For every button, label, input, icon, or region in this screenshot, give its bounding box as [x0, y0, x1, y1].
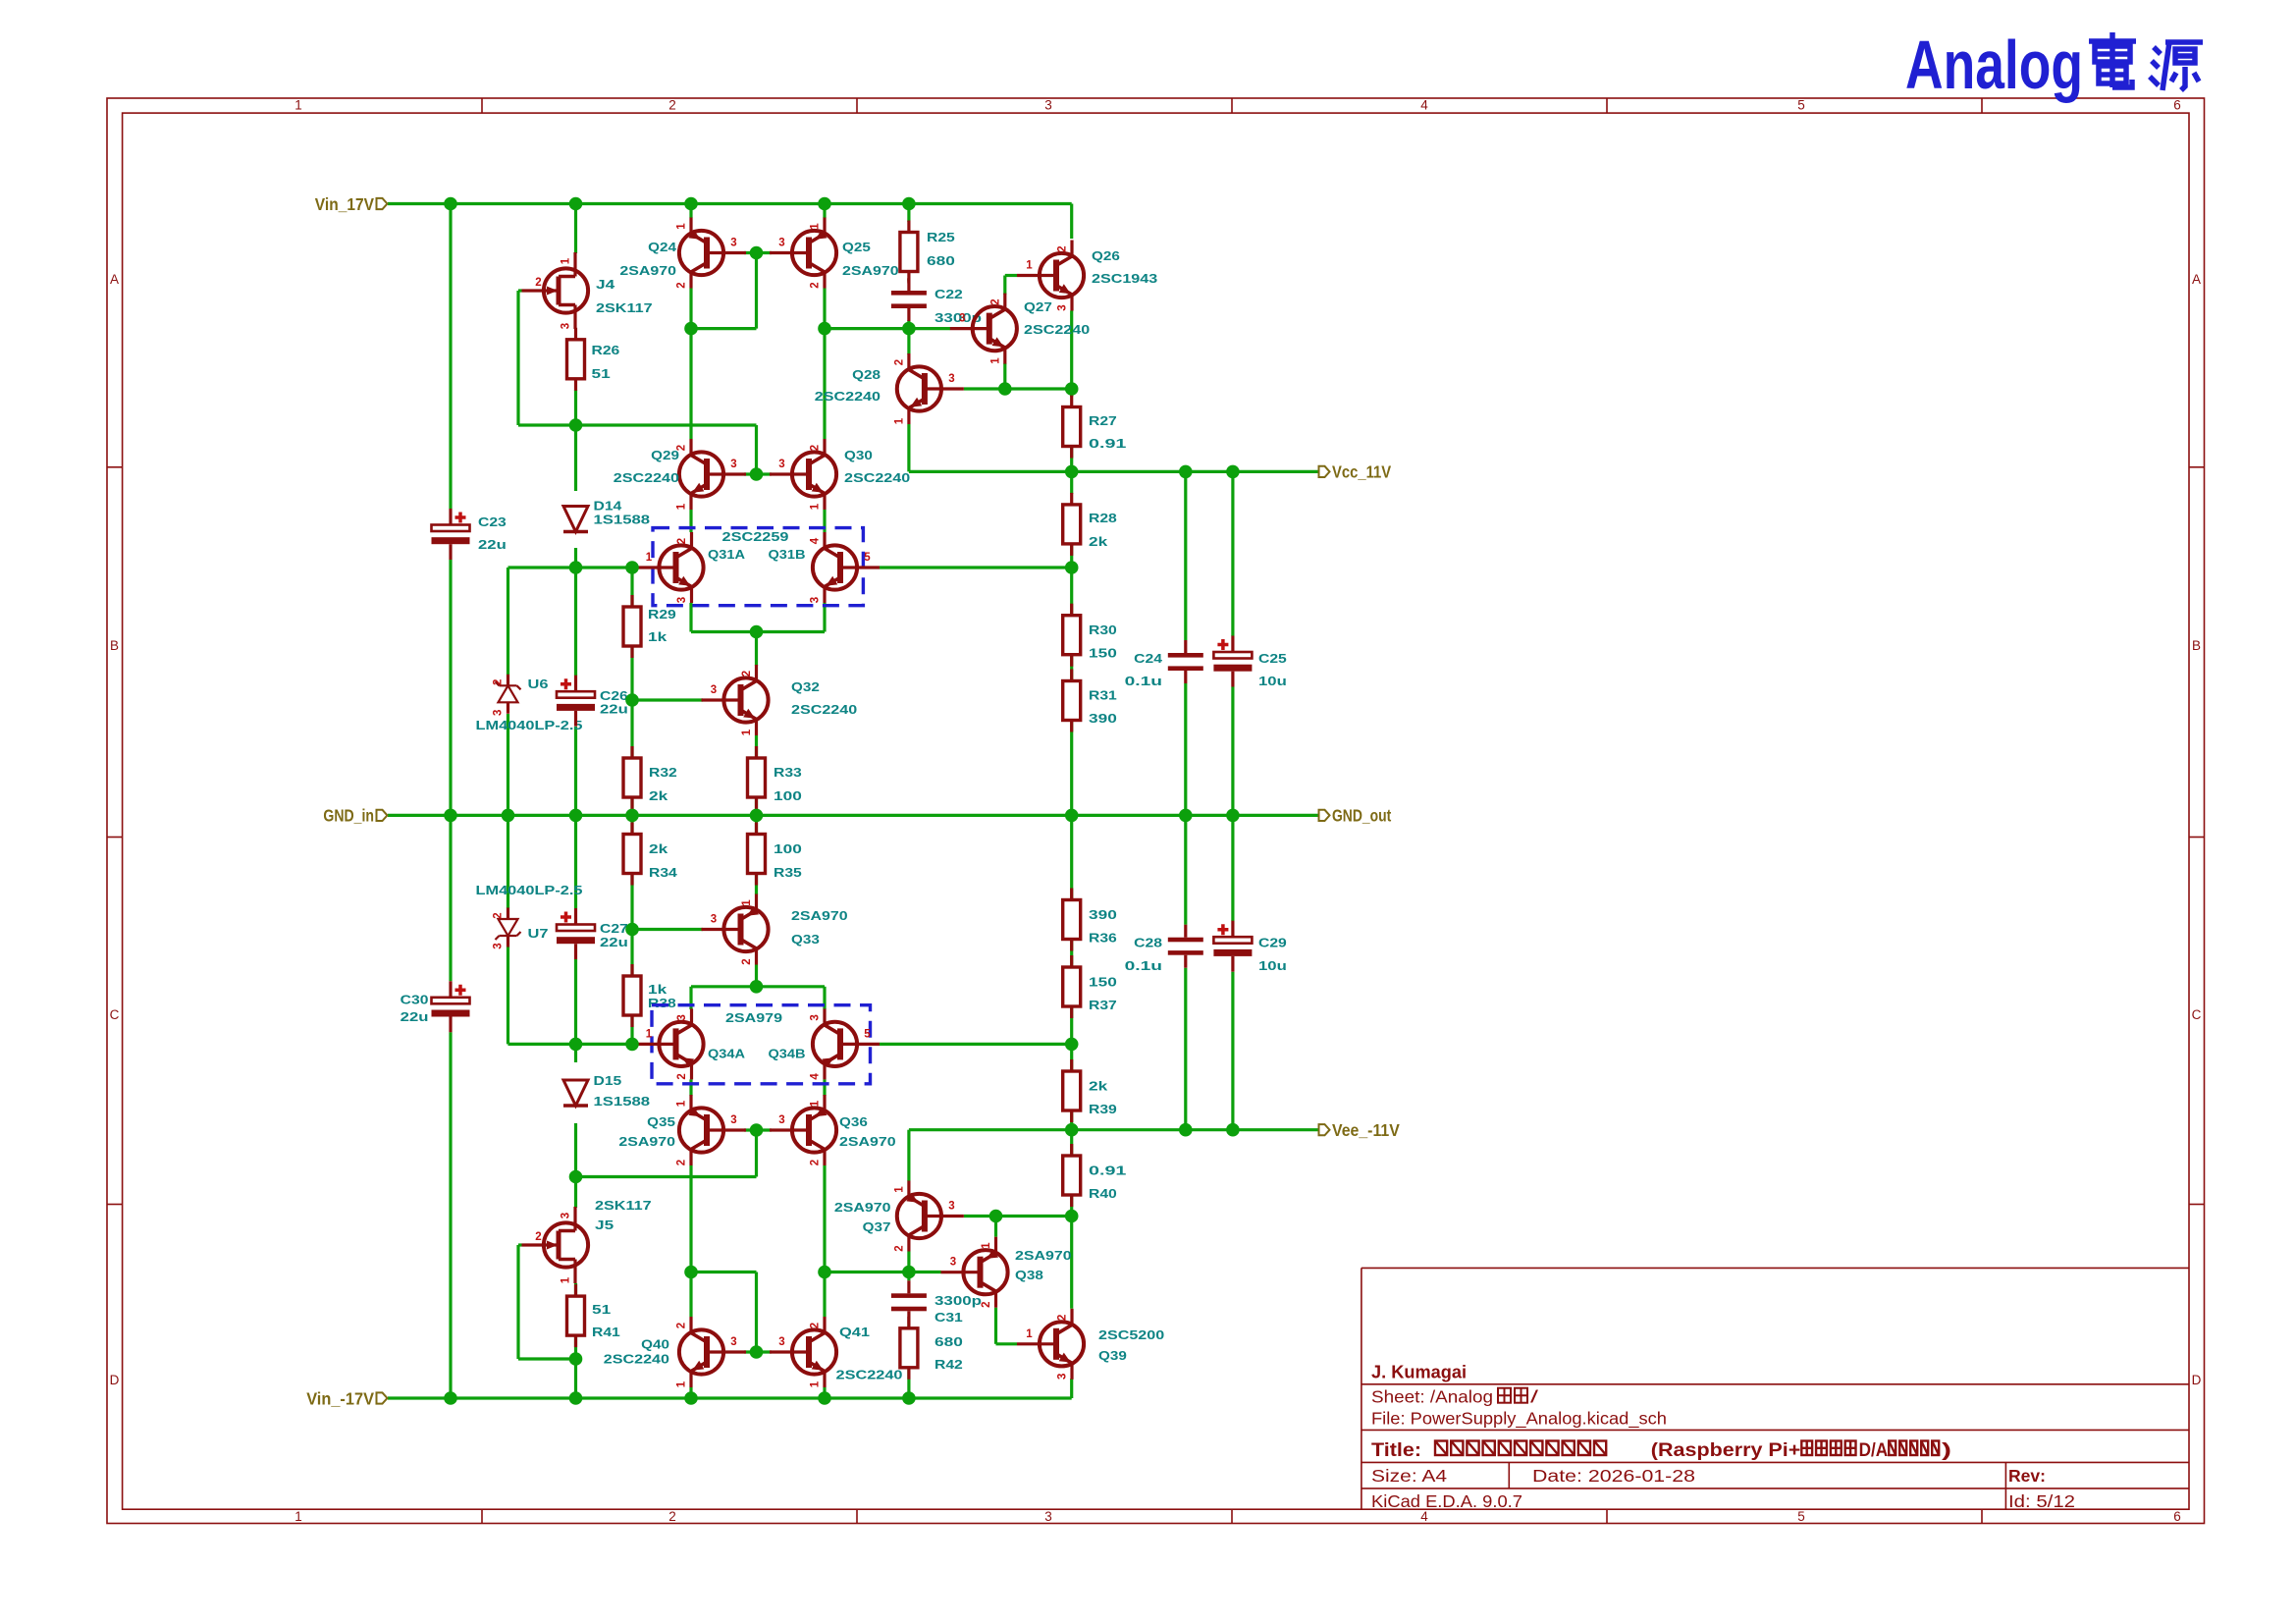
svg-text:1: 1 — [810, 1380, 822, 1387]
svg-text:R27: R27 — [1089, 413, 1117, 428]
svg-text:Q26: Q26 — [1092, 248, 1120, 263]
svg-text:1: 1 — [893, 417, 905, 424]
svg-text:C: C — [2192, 1007, 2202, 1022]
svg-text:680: 680 — [934, 1334, 963, 1349]
wire R34 chain — [630, 815, 633, 835]
svg-text:3: 3 — [778, 238, 784, 249]
transistor Q28 — [897, 353, 964, 424]
resistor R26 — [574, 328, 577, 340]
junction at 840,207.5 — [818, 197, 831, 211]
junction at 840,334.6 — [818, 322, 831, 336]
svg-text:2k: 2k — [1089, 534, 1108, 549]
wire Q37 emitter up — [907, 1130, 910, 1181]
wire Q25 node to C22 — [825, 327, 909, 330]
svg-text:2k: 2k — [1089, 1079, 1108, 1094]
wire Q40 emitter — [689, 1387, 692, 1398]
svg-text:2SC2240: 2SC2240 — [836, 1368, 903, 1382]
voltage reference U6 — [496, 681, 521, 689]
svg-text:A: A — [110, 272, 119, 287]
svg-text:2SA970: 2SA970 — [834, 1200, 891, 1215]
svg-text:R39: R39 — [1089, 1102, 1117, 1116]
transistor Q30 — [770, 439, 836, 510]
svg-text:22u: 22u — [600, 702, 628, 717]
junction at 704,334.6 — [684, 322, 698, 336]
junction at 1023.8,396 — [998, 382, 1012, 396]
wire U7 bottom — [507, 947, 509, 1045]
svg-text:2: 2 — [676, 1323, 688, 1328]
resistor R28 — [1070, 493, 1073, 505]
svg-text:2SK117: 2SK117 — [596, 300, 653, 315]
svg-text:D15: D15 — [594, 1073, 622, 1088]
junction at 1207.8,480.4 — [1179, 465, 1193, 479]
wire C28 bottom — [1184, 968, 1187, 1130]
svg-text:1k: 1k — [648, 982, 667, 997]
capacitor C23 — [432, 525, 470, 532]
wire C25 top — [1231, 471, 1234, 636]
svg-text:Title:: Title: — [1371, 1439, 1421, 1461]
svg-text:2: 2 — [810, 282, 822, 288]
wire C25 bottom — [1231, 687, 1234, 816]
resistor R40 — [1070, 1144, 1073, 1156]
svg-text:U7: U7 — [528, 926, 549, 941]
wire R27 bottom — [1070, 447, 1073, 472]
svg-text:2SK117: 2SK117 — [595, 1198, 652, 1213]
junction at 586.5,1384 — [569, 1352, 583, 1366]
svg-text:4: 4 — [810, 537, 822, 544]
junction at 770.5,257.5 — [750, 246, 764, 260]
wire R32 chain — [630, 700, 633, 759]
wire R42 bottom — [907, 1370, 910, 1398]
wire Q38 emitter to Q39 base — [994, 1308, 997, 1344]
svg-text:File: PowerSupply_Analog.kicad: File: PowerSupply_Analog.kicad_sch — [1371, 1408, 1667, 1429]
svg-text:2: 2 — [676, 282, 688, 288]
svg-text:2: 2 — [893, 359, 905, 365]
wire R28 top — [1070, 471, 1073, 494]
junction at 1091.7,830.4 — [1065, 809, 1079, 823]
svg-text:1k: 1k — [648, 629, 667, 644]
junction at 840,1295.5 — [818, 1266, 831, 1279]
svg-text:3: 3 — [676, 597, 688, 603]
resistor R42 — [907, 1317, 910, 1328]
svg-text:2k: 2k — [649, 841, 668, 856]
transistor Q37 — [897, 1181, 964, 1252]
voltage reference U7 — [496, 932, 521, 940]
capacitor C26 — [557, 691, 595, 698]
svg-text:GND_in: GND_in — [323, 806, 374, 826]
svg-text:3: 3 — [730, 1336, 736, 1348]
wire Q29 emitter to Q31A — [689, 510, 692, 532]
wire U6 top — [507, 568, 509, 675]
svg-text:R41: R41 — [592, 1325, 620, 1339]
wire Q31 emitters tie — [689, 603, 692, 632]
svg-text:Vcc_11V: Vcc_11V — [1332, 462, 1391, 482]
svg-text:3300p: 3300p — [934, 1293, 982, 1308]
wire C30 to rail — [449, 1032, 452, 1398]
diode D14 — [563, 507, 588, 532]
svg-text:D: D — [110, 1373, 120, 1387]
svg-text:Q40: Q40 — [641, 1337, 669, 1352]
svg-text:2: 2 — [1057, 1315, 1069, 1321]
resistor R34 — [630, 823, 633, 835]
svg-text:10u: 10u — [1258, 674, 1287, 688]
wire C26 top — [574, 568, 577, 676]
junction at 925.9,207.5 — [902, 197, 916, 211]
svg-text:2: 2 — [668, 1509, 676, 1524]
wire Q25 collector to Q30 — [823, 289, 826, 440]
wire Q30 emitter to Q31B — [823, 510, 826, 532]
wire GND_in line — [388, 814, 1321, 817]
svg-text:2SA970: 2SA970 — [842, 263, 899, 278]
svg-text:Q28: Q28 — [852, 367, 881, 382]
wire mirror tap — [691, 327, 757, 330]
wire Q24 emitter — [689, 204, 692, 219]
transistor Q31B — [813, 532, 880, 603]
svg-text:2SC2240: 2SC2240 — [791, 702, 857, 717]
svg-text:2: 2 — [741, 958, 753, 964]
svg-text:0.91: 0.91 — [1089, 436, 1126, 451]
svg-text:): ) — [1942, 1439, 1951, 1461]
svg-text:Vin_17V: Vin_17V — [315, 194, 374, 214]
svg-text:680: 680 — [927, 253, 955, 268]
wire tie to Q32 — [755, 632, 758, 667]
junction at 925.9,1424 — [902, 1391, 916, 1405]
junction at 644,1063.4 — [625, 1038, 639, 1052]
svg-text:R34: R34 — [649, 865, 678, 880]
svg-text:Q31A: Q31A — [708, 547, 746, 562]
svg-text:3: 3 — [561, 1213, 572, 1218]
svg-text:B: B — [2192, 638, 2201, 653]
svg-text:Q39: Q39 — [1098, 1348, 1127, 1363]
transistor Q36 — [770, 1095, 836, 1165]
svg-text:GND_out: GND_out — [1332, 806, 1391, 826]
svg-text:2SC2240: 2SC2240 — [844, 470, 910, 485]
svg-text:2: 2 — [893, 1245, 905, 1251]
capacitor C28 — [1168, 938, 1203, 943]
junction at 704,1424 — [684, 1391, 698, 1405]
junction at 586.5,578 — [569, 561, 583, 574]
svg-text:2: 2 — [989, 298, 1001, 304]
svg-text:3: 3 — [493, 710, 505, 716]
svg-text:22u: 22u — [478, 537, 507, 552]
svg-text:R25: R25 — [927, 230, 955, 244]
svg-text:1: 1 — [810, 1100, 822, 1107]
wire Q24-Q25 base link — [744, 251, 772, 254]
svg-text:Q37: Q37 — [863, 1219, 891, 1234]
svg-text:3: 3 — [711, 684, 717, 696]
svg-text:1: 1 — [893, 1186, 905, 1193]
svg-text:C: C — [110, 1007, 120, 1022]
junction at 1014.5,1238.5 — [989, 1210, 1003, 1223]
wire Vee line — [909, 1128, 1321, 1131]
wire Q34 collectors tie — [691, 985, 825, 988]
junction at 644,946.5 — [625, 923, 639, 937]
svg-text:2: 2 — [981, 1301, 992, 1307]
svg-text:Q38: Q38 — [1015, 1268, 1043, 1282]
wire Q33 emitter down — [755, 965, 758, 987]
svg-text:Analog: Analog — [1905, 27, 2083, 103]
svg-text:2k: 2k — [649, 788, 668, 803]
svg-text:C31: C31 — [934, 1310, 963, 1325]
net label Vin_-17V — [377, 1392, 388, 1403]
svg-text:Sheet: /Analog: Sheet: /Analog — [1371, 1387, 1493, 1407]
svg-text:1: 1 — [676, 223, 688, 230]
svg-text:2SC2240: 2SC2240 — [815, 389, 881, 404]
svg-text:Id: 5/12: Id: 5/12 — [2008, 1491, 2075, 1511]
capacitor C24 — [1168, 653, 1203, 658]
junction at 1091.7,396 — [1065, 382, 1079, 396]
svg-text:C25: C25 — [1258, 651, 1287, 666]
svg-text:2SC2240: 2SC2240 — [604, 1352, 669, 1367]
svg-text:2SC2240: 2SC2240 — [614, 470, 679, 485]
svg-text:2: 2 — [741, 671, 753, 677]
wire Q32 emitter — [755, 735, 758, 759]
junction at 1255.9,1150.7 — [1226, 1123, 1240, 1137]
svg-text:R37: R37 — [1089, 998, 1117, 1012]
svg-text:3: 3 — [948, 1201, 954, 1213]
resistor R27 — [1070, 396, 1073, 407]
wire Q32 base — [632, 698, 703, 701]
wire C28 top — [1184, 815, 1187, 924]
wire Q36 node to Q38 base — [825, 1271, 941, 1273]
svg-text:3: 3 — [1057, 304, 1069, 310]
svg-text:Q27: Q27 — [1024, 299, 1052, 314]
svg-text:Q31B: Q31B — [769, 547, 806, 562]
wire Q41 emitter — [823, 1387, 826, 1398]
wire R40 chain — [1070, 1130, 1073, 1157]
transistor Q34A — [637, 1008, 704, 1079]
wire C29 top — [1231, 815, 1234, 921]
wire Q24 collector to Q29 — [689, 289, 692, 440]
svg-text:J. Kumagai: J. Kumagai — [1371, 1363, 1467, 1382]
transistor Q33 — [702, 894, 769, 965]
junction at 1207.8,1150.7 — [1179, 1123, 1193, 1137]
junction at 586.5,207.5 — [569, 197, 583, 211]
wire C24 bottom — [1184, 683, 1187, 815]
svg-text:1: 1 — [646, 552, 653, 564]
junction at 1091.7,578 — [1065, 561, 1079, 574]
svg-text:2: 2 — [810, 1323, 822, 1328]
junction at 1091.7,1063.4 — [1065, 1038, 1079, 1052]
svg-text:390: 390 — [1089, 907, 1117, 922]
svg-text:0.1u: 0.1u — [1125, 674, 1162, 688]
junction at 770.5,830.4 — [750, 809, 764, 823]
svg-text:2: 2 — [535, 1231, 541, 1243]
svg-text:10u: 10u — [1258, 958, 1287, 973]
svg-text:Q33: Q33 — [791, 932, 820, 947]
svg-text:22u: 22u — [400, 1009, 429, 1024]
wire C31 top — [907, 1272, 910, 1281]
junction at 925.9,334.6 — [902, 322, 916, 336]
svg-text:2SC2259: 2SC2259 — [722, 529, 789, 544]
diode D15 — [563, 1080, 588, 1106]
svg-text:3: 3 — [948, 373, 954, 385]
svg-text:3: 3 — [711, 914, 717, 926]
wire D14 anode — [574, 425, 577, 491]
svg-text:1: 1 — [1026, 1328, 1033, 1340]
svg-text:2: 2 — [676, 1073, 688, 1079]
svg-text:R42: R42 — [934, 1357, 963, 1372]
matched pair box 2SA979 — [652, 1005, 871, 1084]
svg-text:2SA979: 2SA979 — [725, 1010, 782, 1025]
svg-text:2: 2 — [493, 679, 505, 685]
svg-text:3: 3 — [1044, 1509, 1052, 1524]
svg-text:A: A — [2192, 272, 2201, 287]
wire Q40-Q41 base link — [744, 1350, 772, 1353]
svg-text:51: 51 — [592, 366, 611, 381]
junction at 704,1295.5 — [684, 1266, 698, 1279]
svg-text:3: 3 — [778, 1336, 784, 1348]
wire Q26 emitter down — [1070, 311, 1073, 398]
svg-text:1: 1 — [1026, 260, 1033, 272]
wire R30 chain — [1070, 568, 1073, 616]
wire base line bottom — [508, 1043, 637, 1046]
resistor R35 — [755, 823, 758, 835]
wire Vin_-17V rail — [388, 1396, 1072, 1399]
resistor R30 — [1070, 604, 1073, 616]
wire R26 to D14 node — [574, 390, 577, 425]
svg-text:3: 3 — [493, 943, 505, 948]
wire Q35 collector to Q40 — [689, 1165, 692, 1317]
svg-text:R36: R36 — [1089, 931, 1117, 946]
svg-text:2SC5200: 2SC5200 — [1098, 1327, 1164, 1342]
svg-text:R30: R30 — [1089, 623, 1117, 637]
wire Q27 emitter down — [1003, 363, 1006, 389]
svg-text:Q36: Q36 — [839, 1114, 868, 1129]
wire J5 drain up — [574, 1177, 577, 1209]
junction at 1091.7,480.4 — [1065, 465, 1079, 479]
junction at 459,1424 — [444, 1391, 457, 1405]
svg-text:Q34A: Q34A — [708, 1047, 746, 1061]
junction at 1255.9,830.4 — [1226, 809, 1240, 823]
svg-text:4: 4 — [810, 1073, 822, 1080]
junction at 586.5,1424 — [569, 1391, 583, 1405]
svg-text:J4: J4 — [596, 277, 615, 292]
wire Q34A emitter down — [689, 1079, 692, 1096]
wire R29 bottom — [630, 646, 633, 700]
svg-text:3: 3 — [730, 459, 736, 470]
resistor R29 — [630, 595, 633, 607]
svg-text:Rev:: Rev: — [2008, 1466, 2046, 1486]
resistor R33 — [755, 746, 758, 758]
svg-text:B: B — [110, 638, 119, 653]
wire base link up — [755, 1272, 758, 1353]
svg-text:Q32: Q32 — [791, 679, 820, 694]
wire C22 to Q27 base — [909, 327, 950, 330]
svg-text:R38: R38 — [648, 996, 676, 1010]
svg-text:Q29: Q29 — [651, 448, 679, 462]
svg-text:150: 150 — [1089, 646, 1117, 661]
svg-text:390: 390 — [1089, 711, 1117, 726]
resistor R25 — [907, 221, 910, 233]
svg-text:Vin_-17V: Vin_-17V — [306, 1388, 374, 1408]
svg-text:Q25: Q25 — [842, 240, 871, 254]
wire base line left — [508, 566, 637, 568]
wire D15 anode — [574, 1044, 577, 1062]
transistor Q32 — [702, 665, 769, 735]
net label Vin_17V — [377, 198, 388, 209]
svg-text:3: 3 — [950, 1257, 956, 1269]
wire D15 cathode — [574, 1123, 577, 1177]
junction at 925.9,1295.5 — [902, 1266, 916, 1279]
svg-text:3: 3 — [959, 313, 965, 325]
svg-text:/: / — [1530, 1387, 1538, 1407]
transistor Q27 — [950, 294, 1017, 364]
JFET J5 — [522, 1207, 589, 1283]
net label GND_in — [377, 810, 388, 821]
junction at 644,830.4 — [625, 809, 639, 823]
svg-text:Q35: Q35 — [647, 1114, 675, 1129]
svg-text:2SA970: 2SA970 — [791, 908, 848, 923]
svg-text:LM4040LP-2.5: LM4040LP-2.5 — [476, 883, 583, 897]
svg-text:1: 1 — [741, 729, 753, 735]
title block — [1362, 1268, 2189, 1509]
junction at 586.5,433 — [569, 418, 583, 432]
wire Q38 collector up — [994, 1217, 997, 1237]
svg-text:Q30: Q30 — [844, 448, 873, 462]
transistor Q26 — [1017, 241, 1084, 311]
transistor Q41 — [770, 1317, 836, 1387]
svg-text:3: 3 — [810, 1014, 822, 1020]
svg-text:LM4040LP-2.5: LM4040LP-2.5 — [476, 718, 583, 732]
junction at 770.5,1004.8 — [750, 980, 764, 994]
svg-text:1S1588: 1S1588 — [594, 513, 651, 527]
svg-text:3: 3 — [1057, 1374, 1069, 1380]
wire R38 chain — [630, 930, 633, 978]
wire R39 chain — [1070, 1044, 1073, 1072]
capacitor C22 — [891, 291, 927, 296]
svg-text:C27: C27 — [600, 921, 628, 936]
wire Vin_17V rail — [388, 202, 1072, 205]
wire Q37 base line — [964, 1215, 1072, 1218]
svg-text:1: 1 — [676, 503, 688, 510]
svg-text:D/A: D/A — [1859, 1439, 1889, 1461]
svg-text:6: 6 — [2173, 1509, 2181, 1524]
svg-text:2SA970: 2SA970 — [839, 1134, 896, 1149]
svg-text:3: 3 — [1044, 98, 1052, 113]
junction at 586.5,1198.5 — [569, 1170, 583, 1184]
wire U7 top — [507, 815, 509, 908]
wire base link down — [755, 253, 758, 329]
svg-text:1: 1 — [294, 1509, 302, 1524]
svg-text:3: 3 — [778, 459, 784, 470]
capacitor C30 — [432, 998, 470, 1004]
junction at 586.5,1063.4 — [569, 1038, 583, 1052]
wire Q39 collector up — [1070, 1217, 1073, 1309]
wire Q34B base to R37/R39 — [880, 1043, 1072, 1046]
svg-text:2: 2 — [1057, 245, 1069, 251]
wire R33 chain — [755, 797, 758, 815]
wire Q29-Q30 base link — [744, 472, 772, 475]
transistor Q38 — [941, 1237, 1008, 1308]
wire C29 bottom — [1231, 972, 1234, 1130]
svg-text:3: 3 — [676, 1014, 688, 1020]
svg-text:R28: R28 — [1089, 511, 1117, 525]
svg-text:2SA970: 2SA970 — [619, 263, 676, 278]
transistor Q31A — [637, 532, 704, 603]
svg-text:(Raspberry Pi+: (Raspberry Pi+ — [1651, 1439, 1801, 1461]
capacitor C27 — [557, 925, 595, 932]
transistor Q25 — [770, 218, 836, 289]
svg-text:Date: 2026-01-28: Date: 2026-01-28 — [1532, 1466, 1695, 1486]
svg-text:1: 1 — [676, 1100, 688, 1107]
transistor Q40 — [679, 1317, 746, 1387]
svg-text:KiCad E.D.A. 9.0.7: KiCad E.D.A. 9.0.7 — [1371, 1491, 1522, 1511]
svg-text:Q41: Q41 — [839, 1325, 870, 1339]
svg-text:0.91: 0.91 — [1089, 1164, 1126, 1178]
svg-text:3: 3 — [810, 597, 822, 603]
resistor R38 — [630, 964, 633, 976]
wire Q33 base — [632, 928, 703, 931]
